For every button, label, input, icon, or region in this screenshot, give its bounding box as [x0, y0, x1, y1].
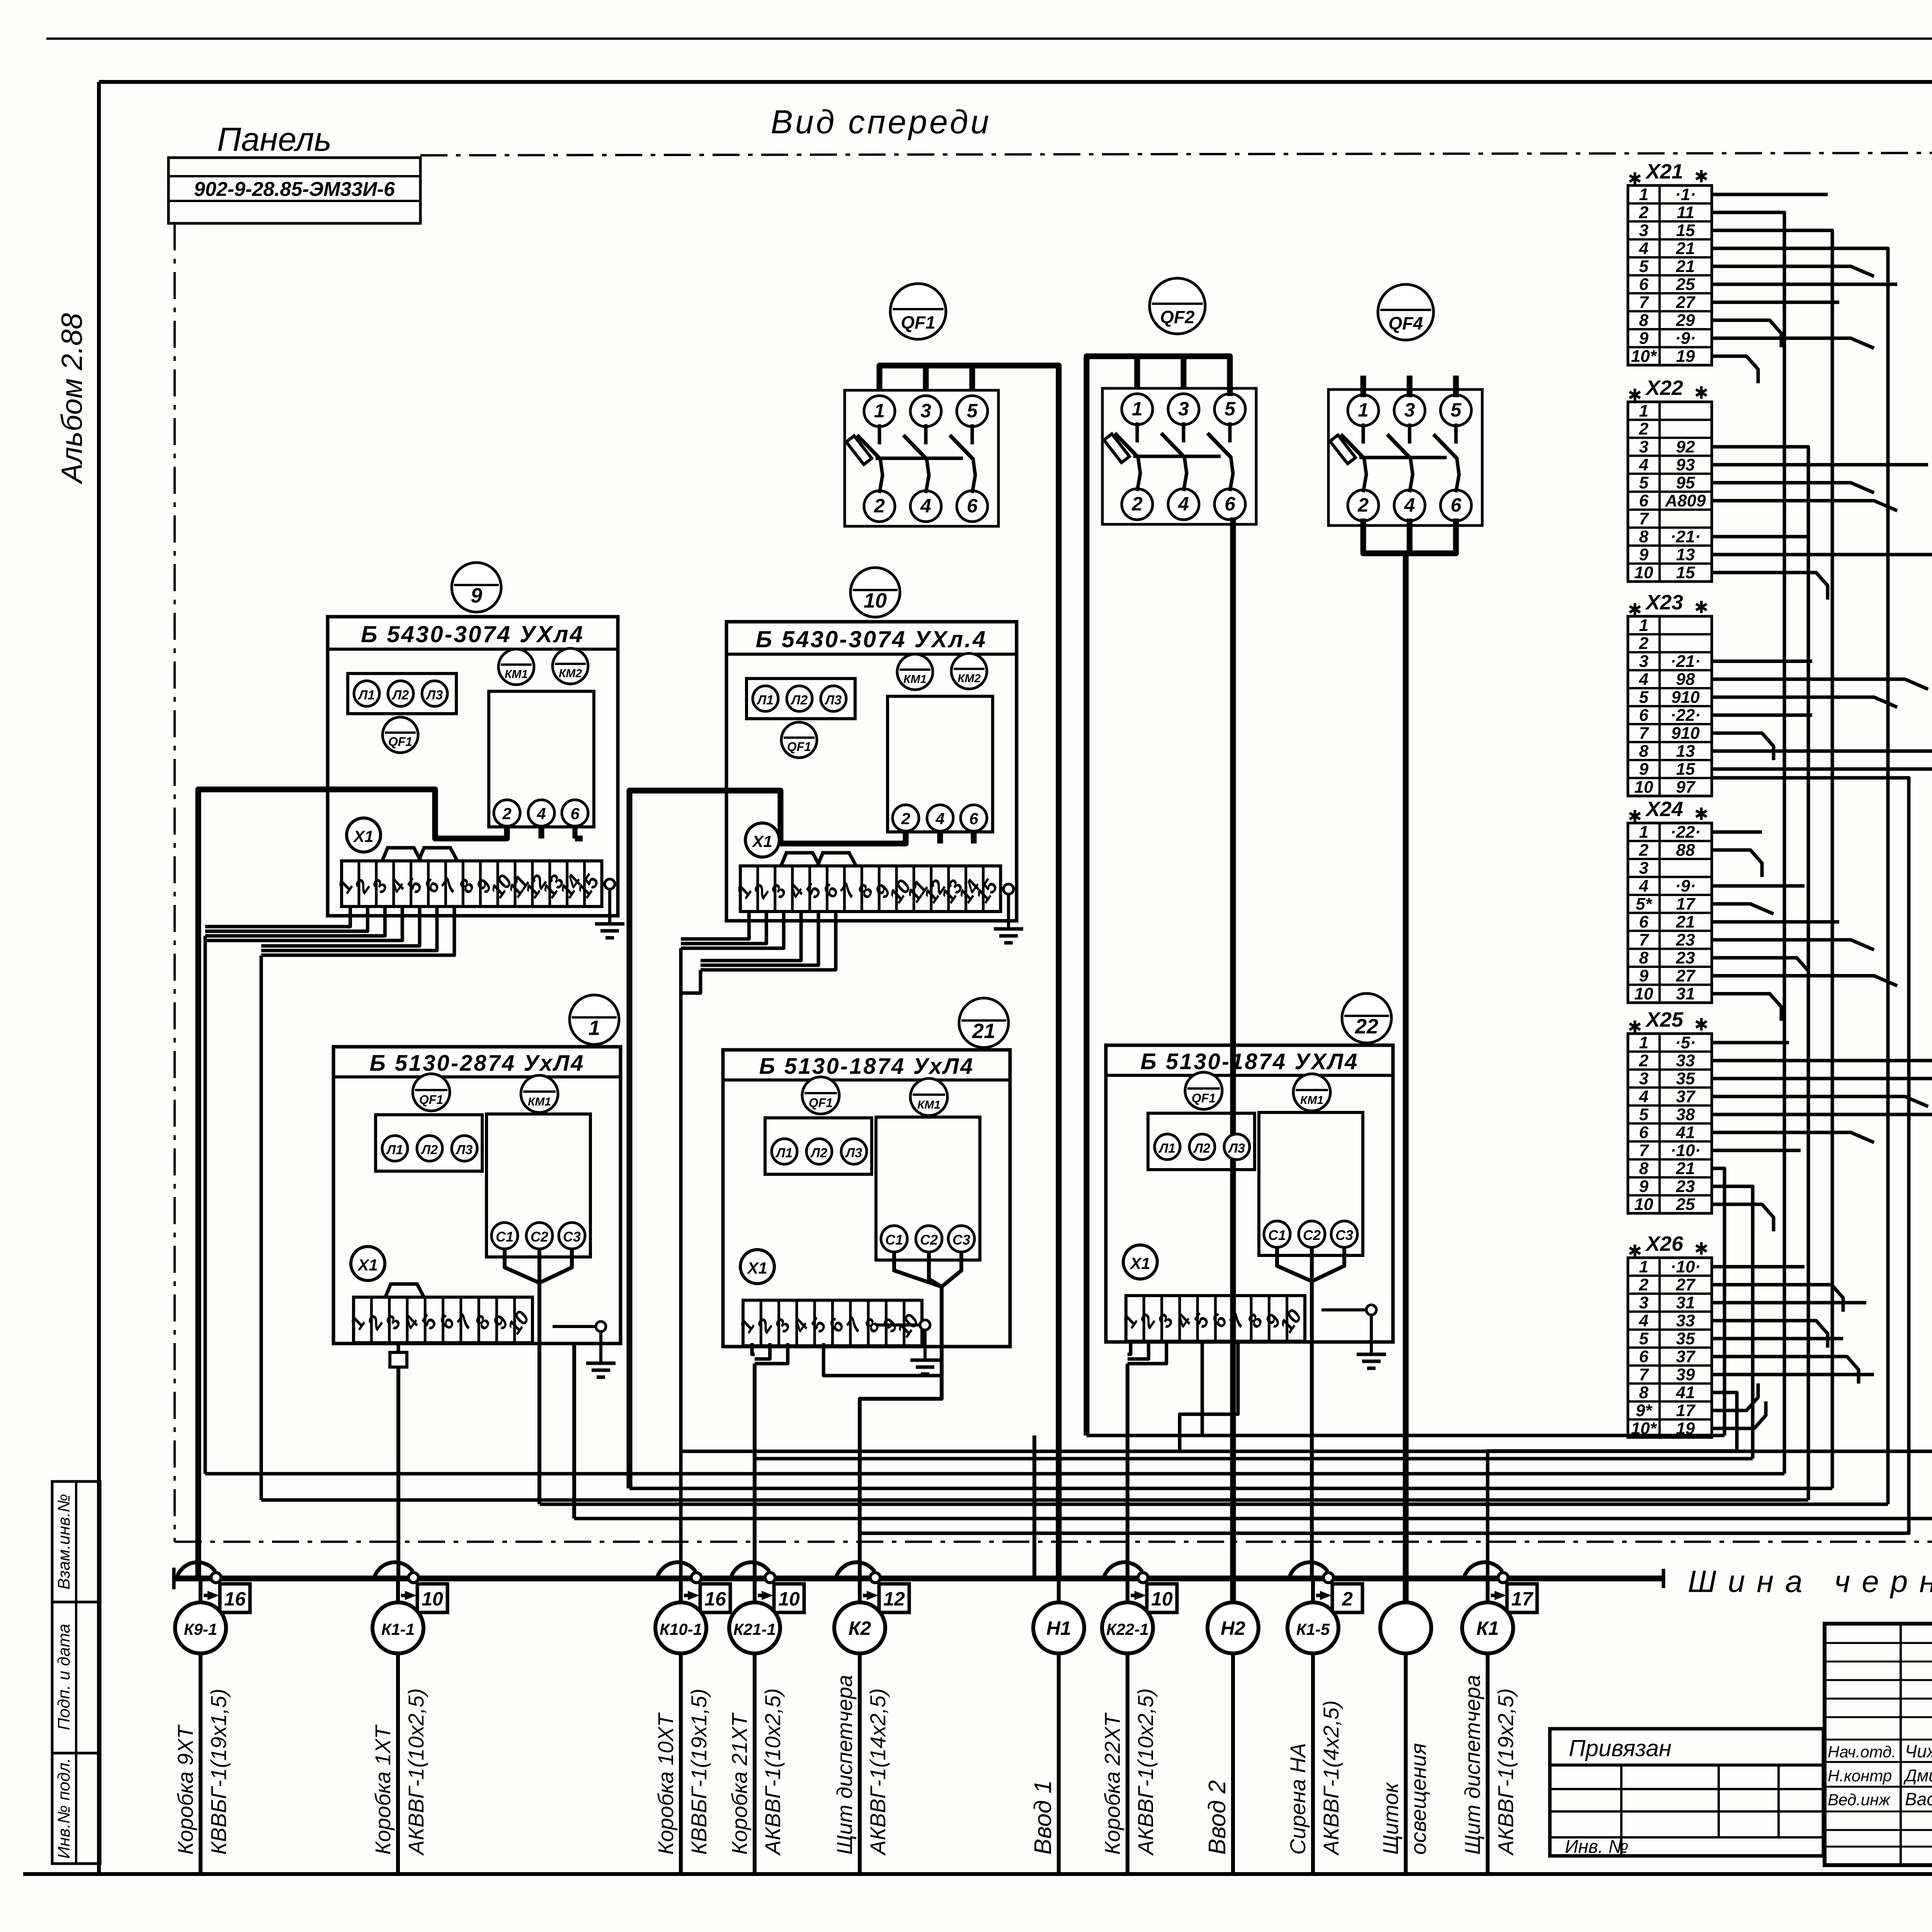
panel 1 strip jumper bump [385, 1284, 424, 1297]
panel 9 signal lamps L1 L2 L3 [348, 673, 456, 714]
svg-text:39: 39 [1676, 1365, 1695, 1384]
svg-text:5: 5 [1639, 688, 1649, 707]
cable drop Н1 [1033, 1578, 1084, 1872]
svg-text:910: 910 [1671, 688, 1700, 707]
svg-text:К1-1: К1-1 [381, 1620, 415, 1638]
panel 1 type label [370, 1051, 585, 1076]
wire QF2 top bus [1087, 356, 1230, 1435]
QF1 pin 1 [864, 396, 895, 427]
svg-text:21: 21 [1676, 257, 1695, 276]
svg-text:2: 2 [1639, 1051, 1649, 1070]
svg-text:3: 3 [920, 400, 931, 422]
panel 10 type label [756, 626, 987, 652]
svg-text:2: 2 [1639, 1276, 1649, 1294]
svg-text:·22·: ·22· [1670, 706, 1701, 725]
svg-text:С2: С2 [920, 1232, 938, 1248]
panel 21 contactor block [876, 1117, 980, 1260]
terminal block X22 [1628, 376, 1712, 582]
cable drop К1-1 [372, 1562, 447, 1872]
QF1 pin 5 [957, 396, 988, 427]
svg-text:3: 3 [1639, 437, 1648, 456]
svg-text:Сирена НА: Сирена НА [1286, 1743, 1310, 1855]
svg-text:X23: X23 [1645, 591, 1683, 614]
svg-text:16: 16 [224, 1588, 246, 1610]
wire panel 9 terminals 1-4 bundle [205, 906, 402, 1474]
svg-text:27: 27 [1676, 966, 1696, 985]
svg-text:Привязан: Привязан [1569, 1735, 1672, 1761]
svg-text:4: 4 [1639, 670, 1648, 689]
svg-text:22: 22 [1355, 1015, 1378, 1038]
svg-text:2: 2 [1639, 634, 1649, 653]
svg-text:3: 3 [1639, 1293, 1648, 1312]
panel 22 contactor terminal С1 [1264, 1221, 1290, 1247]
svg-text:10: 10 [1634, 563, 1653, 582]
svg-text:3: 3 [1178, 398, 1189, 420]
svg-text:6: 6 [1451, 494, 1462, 516]
svg-text:902-9-28.85-ЭМ33И-6: 902-9-28.85-ЭМ33И-6 [194, 178, 395, 201]
svg-text:4: 4 [1178, 493, 1189, 515]
QF4 pin 3 [1394, 395, 1425, 426]
main title block [1825, 1624, 1932, 1866]
svg-text:QF4: QF4 [1388, 313, 1423, 333]
svg-text:9*: 9* [1636, 1401, 1652, 1420]
svg-text:23: 23 [1676, 930, 1695, 949]
panel 9 contactor terminal 6 [562, 800, 588, 826]
svg-text:88: 88 [1676, 841, 1695, 860]
panel 22 contactor terminal С2 [1299, 1221, 1325, 1247]
svg-text:Б 5430-3074 УХл.4: Б 5430-3074 УХл.4 [756, 626, 987, 652]
wire panel 21 terminal 5 link [823, 1343, 942, 1376]
svg-text:1: 1 [588, 1017, 600, 1040]
svg-text:КМ1: КМ1 [528, 1095, 551, 1108]
svg-text:15: 15 [1676, 760, 1695, 779]
svg-text:С3: С3 [563, 1229, 581, 1245]
privyazan block [1550, 1729, 1823, 1857]
svg-text:9: 9 [1639, 966, 1649, 985]
panel 9 contactor terminal 4 [528, 800, 554, 826]
QF4 pin 6 [1440, 490, 1471, 521]
svg-text:Б 5430-3074 УХл4: Б 5430-3074 УХл4 [361, 621, 584, 647]
panel 1 contactor KM1 [521, 1075, 558, 1112]
svg-text:X25: X25 [1645, 1008, 1684, 1031]
svg-text:Н2: Н2 [1221, 1617, 1245, 1639]
svg-text:КМ1: КМ1 [903, 673, 927, 686]
svg-text:4: 4 [1639, 456, 1648, 474]
svg-text:15: 15 [1676, 221, 1695, 240]
panel 9 type label [361, 621, 584, 647]
svg-text:4: 4 [920, 495, 931, 517]
svg-text:9: 9 [1639, 760, 1649, 779]
svg-text:17: 17 [1676, 1401, 1696, 1420]
svg-text:·10·: ·10· [1670, 1257, 1701, 1276]
svg-text:С3: С3 [1335, 1227, 1353, 1243]
panel 22 contactor block [1259, 1112, 1363, 1255]
svg-text:А809: А809 [1665, 492, 1706, 510]
cable label Ввод 1 [1030, 1780, 1056, 1855]
svg-text:X1: X1 [357, 1256, 378, 1274]
wire loop X21.4 [540, 248, 1888, 1504]
svg-text:5: 5 [1639, 1329, 1649, 1348]
svg-text:Коробка 22ХТ: Коробка 22ХТ [1100, 1712, 1124, 1855]
svg-text:5: 5 [967, 400, 978, 422]
svg-text:X22: X22 [1645, 376, 1683, 400]
svg-text:Альбом 2.88: Альбом 2.88 [56, 313, 88, 485]
wire loop X23.8 [574, 751, 1932, 1519]
svg-text:X21: X21 [1645, 160, 1683, 183]
svg-text:X26: X26 [1645, 1232, 1684, 1255]
QF2 pin 3 [1168, 394, 1199, 425]
svg-text:Л2: Л2 [810, 1146, 827, 1160]
panel 10 connector X1 label [745, 823, 779, 857]
svg-text:Шина черная нулевая: Шина черная нулевая [1688, 1564, 1932, 1599]
QF2 pin 5 [1214, 394, 1245, 425]
wire panel 21 terminals bundle [752, 1343, 788, 1578]
panel 1 breaker QF1 [413, 1074, 450, 1111]
wire QF1 pin5 riser [969, 366, 975, 390]
svg-text:Коробка 9ХТ: Коробка 9ХТ [173, 1724, 197, 1855]
svg-text:Панель: Панель [217, 121, 332, 158]
svg-text:АКВВГ-1(19х2,5): АКВВГ-1(19х2,5) [1493, 1688, 1518, 1856]
svg-text:4: 4 [1639, 1311, 1648, 1330]
circuit breaker QF1 designator balloon [890, 284, 946, 339]
svg-text:Инв.№ подл.: Инв.№ подл. [54, 1758, 73, 1859]
QF1 switch poles [846, 424, 975, 493]
svg-text:4: 4 [1639, 1087, 1648, 1106]
panel 21 contactor terminal С2 [916, 1226, 942, 1252]
cable drop Н2 [1207, 1578, 1259, 1872]
QF4 switch poles [1330, 423, 1459, 492]
cable drop К22-1 [1102, 1562, 1177, 1872]
svg-text:5: 5 [1639, 473, 1649, 492]
svg-text:6: 6 [969, 810, 978, 828]
svg-text:АКВВГ-1(10х2,5): АКВВГ-1(10х2,5) [760, 1688, 785, 1856]
svg-text:Л3: Л3 [425, 688, 443, 702]
panel 10 contactor terminal 4 [927, 805, 953, 831]
svg-text:2: 2 [502, 804, 511, 823]
panel 9 ground [595, 879, 624, 938]
wire QF2 pin3 riser [1181, 356, 1187, 388]
svg-text:7: 7 [1639, 930, 1650, 949]
svg-text:С1: С1 [885, 1232, 903, 1248]
svg-text:КМ2: КМ2 [559, 667, 582, 680]
svg-text:1: 1 [1358, 399, 1369, 421]
svg-text:Л3: Л3 [455, 1143, 473, 1157]
svg-text:·9·: ·9· [1675, 329, 1696, 348]
svg-text:X1: X1 [752, 832, 772, 850]
cable label Щиток [1378, 1743, 1430, 1855]
svg-text:6: 6 [1639, 706, 1649, 725]
svg-text:✱: ✱ [1694, 1015, 1709, 1034]
svg-text:С2: С2 [531, 1229, 548, 1245]
panel 1 ground [553, 1321, 616, 1377]
panel 22 terminal strip X1 1..10 [1117, 1296, 1306, 1341]
null bus (shina chernaya nulevaya) [174, 1568, 1663, 1589]
svg-text:7: 7 [1639, 293, 1650, 312]
svg-text:25: 25 [1676, 1195, 1695, 1214]
svg-text:1: 1 [1639, 185, 1648, 204]
QF1 pin 6 [957, 491, 988, 522]
panel 22 contactor terminal С3 [1331, 1221, 1357, 1247]
QF1 pin 4 [910, 491, 941, 522]
svg-text:33: 33 [1676, 1311, 1695, 1330]
svg-text:5: 5 [1225, 398, 1236, 420]
svg-text:X1: X1 [747, 1259, 767, 1277]
terminal block X24 [1628, 798, 1712, 1003]
circuit breaker QF1 outline [845, 390, 998, 526]
svg-text:КМ1: КМ1 [505, 668, 528, 681]
svg-text:12: 12 [883, 1588, 905, 1610]
document label box 902-9-28.85-EM33I-6 [168, 158, 420, 223]
svg-text:35: 35 [1676, 1069, 1695, 1088]
svg-text:X24: X24 [1645, 798, 1683, 821]
svg-text:41: 41 [1676, 1123, 1695, 1142]
panel boundary dash-dot outline [175, 153, 1932, 1542]
svg-text:9: 9 [471, 584, 482, 607]
panel 22 type label [1141, 1049, 1359, 1074]
svg-text:23: 23 [1676, 1177, 1695, 1196]
svg-text:Коробка 21ХТ: Коробка 21ХТ [727, 1712, 752, 1855]
svg-text:КМ1: КМ1 [917, 1099, 940, 1111]
panel 9 contactor block [489, 691, 594, 827]
svg-text:15: 15 [1676, 563, 1695, 582]
panel 9 breaker QF1 [383, 717, 418, 753]
panel 22 ground [1321, 1305, 1386, 1368]
wire panel 10 terminals 1-3 bundle [681, 912, 784, 1578]
svg-text:Н.контр: Н.контр [1828, 1767, 1892, 1785]
panel 1 contactor terminal С3 [559, 1223, 585, 1249]
QF4 pin 2 [1348, 490, 1379, 521]
panel 22 connector X1 label [1123, 1245, 1157, 1279]
svg-text:8: 8 [1639, 527, 1649, 546]
svg-text:5: 5 [1451, 399, 1462, 421]
panel 22 outline Б 5130-1874 УХЛ4 [1106, 1045, 1393, 1342]
wire panel 22 terminal 7 link [1180, 1343, 1238, 1451]
wire loop X25.8 [1087, 1168, 1725, 1435]
svg-text:Л1: Л1 [775, 1146, 793, 1160]
svg-text:6: 6 [1639, 492, 1649, 510]
svg-text:КМ1: КМ1 [1300, 1094, 1323, 1107]
svg-text:10: 10 [1634, 1195, 1653, 1214]
cable label Коробка 9ХТ [173, 1689, 231, 1855]
QF4 pin 1 [1348, 395, 1379, 426]
svg-text:9: 9 [1639, 1177, 1649, 1196]
panel 9 contactor KM2 [553, 648, 588, 684]
svg-text:17: 17 [1511, 1588, 1534, 1610]
panel 10 signal lamps L1 L2 L3 [747, 679, 855, 719]
panel 21 contactor KM1 [910, 1078, 947, 1116]
wire transit verticals right side [1712, 266, 1860, 282]
wire loop X22.3 [261, 447, 1808, 1500]
panel 21 connector X1 label [740, 1250, 774, 1284]
svg-text:QF1: QF1 [1192, 1091, 1216, 1105]
svg-text:6: 6 [1225, 493, 1236, 515]
svg-text:Вед.инж: Вед.инж [1828, 1791, 1891, 1809]
svg-text:3: 3 [1404, 399, 1415, 421]
svg-text:С1: С1 [496, 1229, 514, 1245]
svg-text:✱: ✱ [1694, 805, 1709, 824]
svg-text:Л2: Л2 [420, 1143, 438, 1157]
svg-text:10: 10 [864, 589, 887, 612]
album label [56, 313, 88, 485]
QF2 pin 1 [1122, 394, 1153, 425]
svg-text:✱: ✱ [1694, 167, 1709, 186]
svg-text:38: 38 [1676, 1105, 1695, 1124]
svg-text:1: 1 [1639, 1033, 1648, 1052]
cable label Коробка 10ХТ [653, 1689, 711, 1855]
svg-text:11: 11 [1677, 203, 1694, 222]
svg-text:·22·: ·22· [1670, 823, 1701, 842]
svg-text:АКВВГ-1(10х2,5): АКВВГ-1(10х2,5) [1133, 1688, 1158, 1856]
panel 1 outline Б 5130-2874 УхЛ4 [333, 1047, 621, 1344]
wire K2 bundle horizontal [860, 778, 1909, 1533]
svg-text:К2: К2 [849, 1617, 871, 1639]
panel 1 contactor terminal С2 [526, 1223, 553, 1249]
QF4 pin 4 [1394, 490, 1425, 521]
QF1 pin 3 [910, 396, 941, 427]
svg-text:1: 1 [874, 400, 885, 422]
svg-text:2: 2 [901, 810, 910, 828]
wire panel 1 terminal 3 drop [390, 1343, 407, 1578]
QF2 pin 4 [1168, 489, 1199, 520]
svg-text:2: 2 [1342, 1588, 1353, 1610]
svg-text:Л3: Л3 [1228, 1141, 1245, 1156]
cable drop Щиток [1380, 1578, 1431, 1872]
svg-text:Взам.инв.№: Взам.инв.№ [54, 1494, 73, 1590]
svg-text:5: 5 [1639, 1105, 1649, 1124]
svg-text:К1: К1 [1476, 1617, 1499, 1639]
panel 9 contactor terminal 2 [494, 800, 520, 826]
svg-text:·9·: ·9· [1675, 877, 1696, 896]
svg-text:97: 97 [1676, 778, 1696, 797]
svg-text:4: 4 [1404, 494, 1415, 516]
panel 21 breaker QF1 [802, 1077, 839, 1114]
svg-text:92: 92 [1676, 437, 1695, 456]
svg-text:7: 7 [1639, 509, 1650, 528]
cable label Коробка 22ХТ [1100, 1688, 1158, 1856]
panel 9 strip jumper bumps [382, 848, 457, 861]
wire panel 10 terminals 4-6 bundle [681, 912, 836, 993]
svg-text:АКВВГ-1(10х2,5): АКВВГ-1(10х2,5) [404, 1688, 428, 1856]
svg-text:1: 1 [1639, 1257, 1648, 1276]
svg-text:Б 5130-1874 УхЛ4: Б 5130-1874 УхЛ4 [759, 1054, 975, 1079]
svg-text:КМ2: КМ2 [957, 672, 981, 685]
panel 1 signal lamps L1 L2 L3 [376, 1115, 482, 1171]
svg-text:Л1: Л1 [386, 1143, 403, 1157]
svg-text:5: 5 [1639, 257, 1649, 276]
svg-text:8: 8 [1639, 742, 1649, 761]
panel 10 outline Б 5430-3074 УХл.4 [726, 622, 1017, 921]
cable label Щит диспетчера [1460, 1675, 1518, 1856]
svg-text:освещения: освещения [1406, 1743, 1430, 1855]
panel 1 terminal strip X1 1..10 [345, 1297, 534, 1343]
left margin stamp boxes [52, 1481, 100, 1864]
svg-text:9: 9 [1639, 329, 1649, 348]
svg-text:6: 6 [967, 495, 978, 517]
panel 1 contactor block [486, 1114, 590, 1257]
panel 10 contactor block [888, 696, 993, 832]
svg-text:АКВВГ-1(4х2,5): АКВВГ-1(4х2,5) [1319, 1700, 1343, 1856]
svg-text:Л3: Л3 [845, 1146, 862, 1160]
svg-text:9: 9 [1639, 545, 1649, 564]
svg-text:6: 6 [1639, 275, 1649, 294]
panel 21 signal lamps L1 L2 L3 [765, 1118, 872, 1174]
panel 10 breaker QF1 [781, 722, 817, 758]
svg-text:16: 16 [704, 1588, 726, 1610]
panel 1 connector X1 label [351, 1247, 385, 1281]
svg-text:6: 6 [570, 804, 580, 823]
svg-text:8: 8 [1639, 1159, 1649, 1178]
svg-text:10*: 10* [1631, 347, 1657, 366]
QF2 switch poles [1104, 422, 1233, 491]
svg-text:2: 2 [874, 495, 885, 517]
bus label [1688, 1564, 1932, 1599]
svg-text:✱: ✱ [1694, 384, 1709, 403]
wire panel 9 feeder [198, 789, 583, 1578]
svg-text:АКВВГ-1(14х2,5): АКВВГ-1(14х2,5) [866, 1688, 890, 1856]
svg-text:6: 6 [1639, 1347, 1649, 1366]
svg-text:6: 6 [1639, 1123, 1649, 1142]
svg-text:Л2: Л2 [790, 693, 808, 707]
panel 10 strip jumper bumps [781, 853, 856, 866]
cable label Коробка 1ХТ [371, 1688, 428, 1856]
panel 1 designator balloon [570, 995, 619, 1044]
svg-text:37: 37 [1676, 1087, 1696, 1106]
svg-text:1: 1 [1639, 616, 1648, 635]
cable label Щит диспетчера [832, 1675, 890, 1856]
panel 21 contactor terminal С3 [948, 1226, 975, 1252]
panel 10 designator balloon [850, 568, 900, 617]
svg-text:10: 10 [422, 1588, 443, 1610]
panel 10 contactor KM1 [897, 654, 933, 690]
svg-text:QF1: QF1 [901, 313, 935, 333]
panel 9 contactor KM1 [498, 649, 534, 685]
svg-text:X1: X1 [353, 827, 373, 845]
svg-text:QF1: QF1 [809, 1096, 833, 1110]
svg-text:Дмитриева: Дмитриева [1903, 1766, 1932, 1785]
svg-text:Л2: Л2 [1193, 1141, 1210, 1156]
svg-text:7: 7 [1639, 1365, 1650, 1384]
QF4 pin 5 [1440, 395, 1471, 426]
svg-text:Ввод 2: Ввод 2 [1204, 1780, 1231, 1855]
cable drop К10-1 [655, 1562, 730, 1872]
svg-text:Б 5130-2874 УхЛ4: Б 5130-2874 УхЛ4 [370, 1051, 585, 1076]
svg-text:QF1: QF1 [787, 740, 811, 754]
svg-text:С3: С3 [952, 1232, 970, 1248]
svg-text:910: 910 [1671, 724, 1700, 743]
panel 21 terminal strip X1 1..10 [735, 1300, 923, 1346]
wire stubs at terminal blocks [1712, 194, 1932, 1429]
wire loop X26.8 K1 [1488, 1393, 1737, 1578]
svg-text:Л3: Л3 [824, 693, 842, 707]
svg-text:·5·: ·5· [1675, 1033, 1696, 1052]
panel 22 contactor KM1 [1293, 1074, 1330, 1111]
svg-text:·21·: ·21· [1670, 527, 1701, 546]
cable label Сирена НА [1286, 1700, 1343, 1856]
panel 9 terminal strip X1 1..15 [333, 861, 604, 906]
svg-text:Б 5130-1874 УХЛ4: Б 5130-1874 УХЛ4 [1141, 1049, 1359, 1074]
svg-text:Л1: Л1 [357, 688, 375, 702]
svg-text:31: 31 [1676, 1293, 1695, 1312]
svg-text:Щиток: Щиток [1378, 1782, 1403, 1855]
svg-text:21: 21 [1676, 1159, 1695, 1178]
svg-text:23: 23 [1676, 949, 1695, 968]
cable drop К21-1 [729, 1562, 804, 1872]
svg-text:3: 3 [1639, 221, 1648, 240]
panel 9 connector X1 label [347, 818, 381, 852]
svg-text:·1·: ·1· [1675, 185, 1696, 204]
svg-text:1: 1 [1132, 398, 1143, 420]
terminal block X26 [1628, 1232, 1712, 1438]
